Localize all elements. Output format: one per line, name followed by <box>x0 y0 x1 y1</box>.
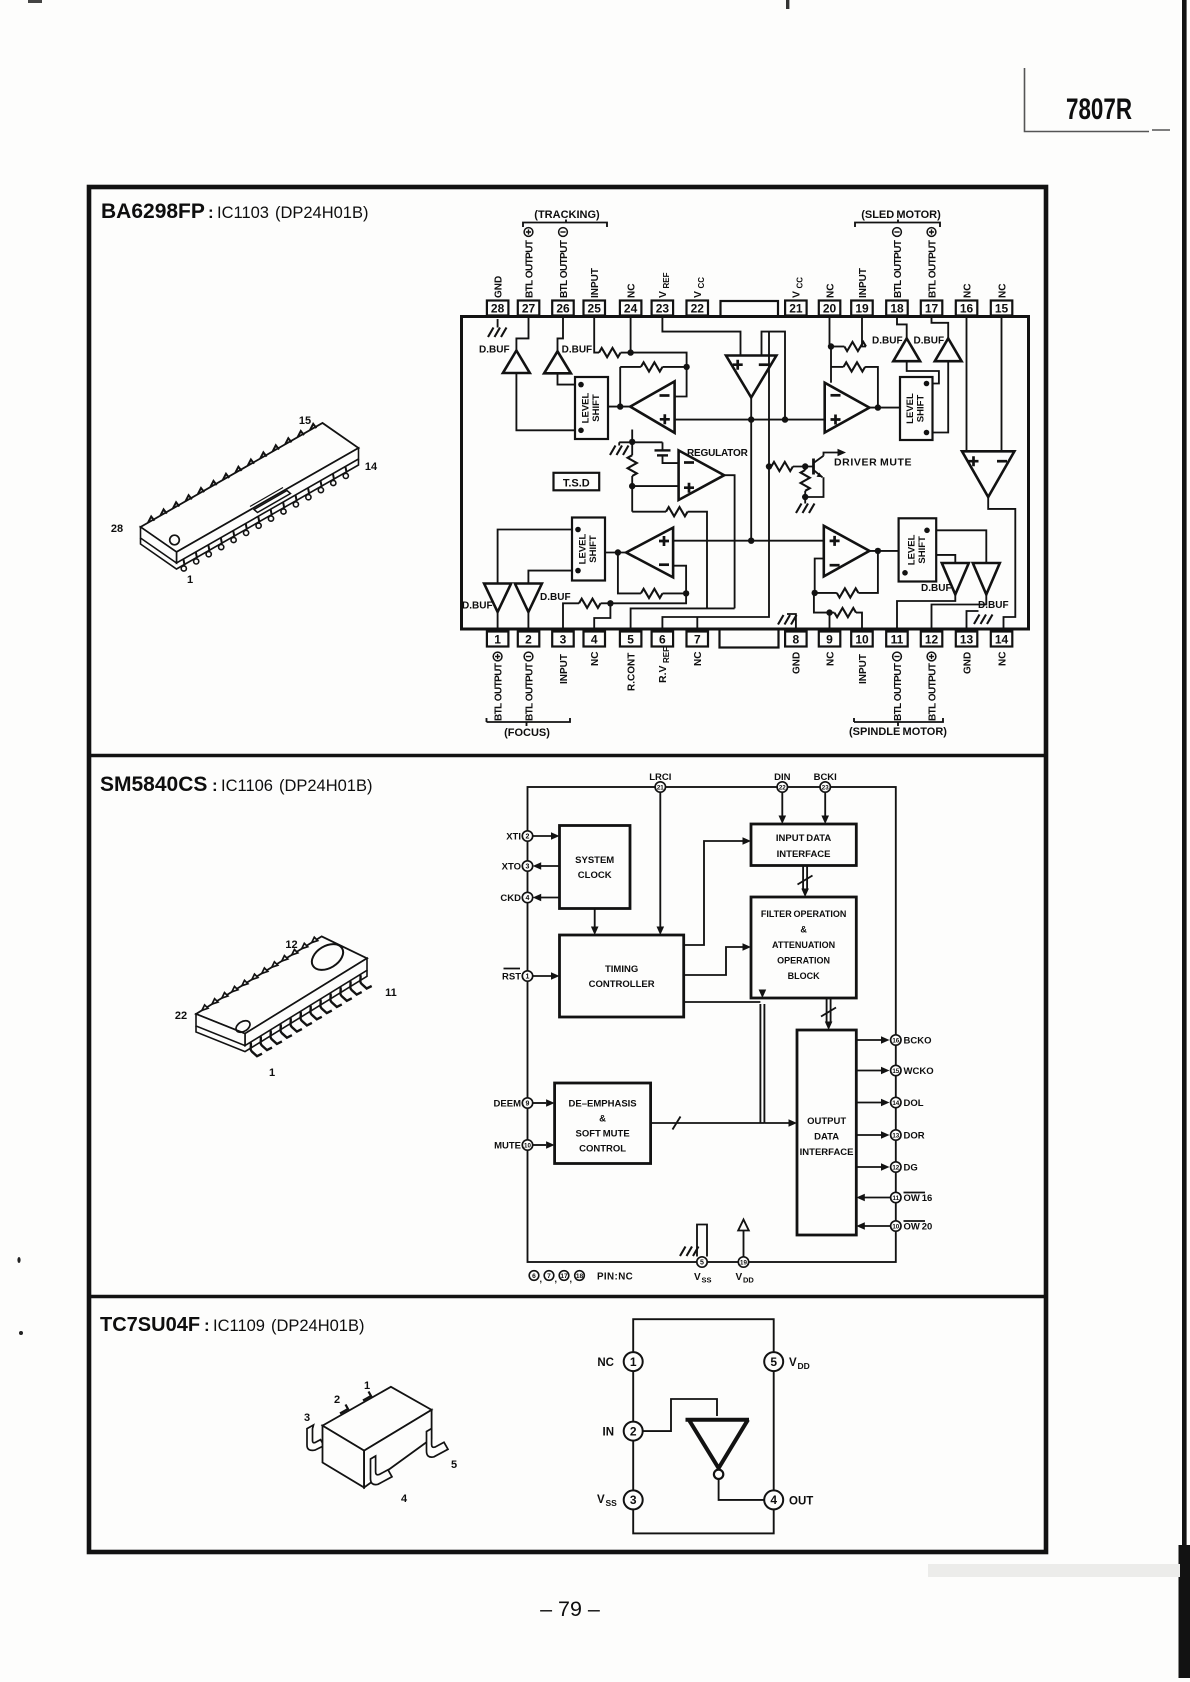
svg-text:INPUT DATA: INPUT DATA <box>776 833 832 844</box>
pin 5 label R.CONT <box>626 653 637 691</box>
pin 8 label GND <box>792 652 803 674</box>
node N9 <box>802 494 808 500</box>
svg-text:OUTPUT: OUTPUT <box>807 1116 846 1127</box>
XTO arrow <box>533 862 560 870</box>
svg-text:2: 2 <box>526 833 530 840</box>
svg-text:SYSTEM: SYSTEM <box>575 855 614 866</box>
pin circle XTO 3 <box>502 861 533 873</box>
svg-text:IC1109 (DP24H01B): IC1109 (DP24H01B) <box>213 1317 364 1335</box>
svg-text:BTL OUTPUT: BTL OUTPUT <box>559 240 570 298</box>
svg-text:INPUT: INPUT <box>858 654 869 684</box>
svg-text:BCKO: BCKO <box>904 1036 932 1047</box>
wire N10 down <box>830 347 832 383</box>
pin 19 box <box>851 301 873 316</box>
ground G3 <box>796 504 815 514</box>
svg-text:RST: RST <box>502 972 521 983</box>
svg-text:15: 15 <box>299 415 311 427</box>
pin 27 label BTLP <box>524 228 535 298</box>
svg-text:21: 21 <box>657 784 664 791</box>
svg-text:2: 2 <box>334 1394 340 1406</box>
pin circle 2 IN <box>603 1422 643 1441</box>
IC U2 boundary <box>528 787 896 1262</box>
svg-text:14: 14 <box>892 1100 899 1107</box>
svg-text:5: 5 <box>627 633 634 647</box>
pin 24 box <box>620 301 642 316</box>
svg-text:14: 14 <box>995 633 1009 647</box>
pin 4 wire <box>594 603 610 630</box>
svg-text:3: 3 <box>526 863 530 870</box>
wire B7 to pin 11 <box>897 595 955 632</box>
scan specks <box>17 1257 20 1263</box>
svg-text:NC: NC <box>590 652 601 666</box>
(TRACKING) group bracket <box>523 209 607 227</box>
D.BUF buffer B4 (pin 17) <box>914 316 962 361</box>
output data interface block <box>797 1030 856 1235</box>
wire level shift to B4 <box>933 361 949 432</box>
wire N13 to A6 inverting <box>673 566 686 594</box>
svg-text:1: 1 <box>494 633 501 647</box>
svg-text:MUTE: MUTE <box>494 1141 521 1152</box>
system clock to timing controller arrow <box>591 909 599 936</box>
pin 13 label GND <box>962 652 973 674</box>
pin 11 label BTLM <box>893 652 904 721</box>
D.BUF buffer B6 (pin 2) <box>515 584 571 632</box>
svg-text:SHIFT: SHIFT <box>917 536 928 564</box>
node N12 <box>615 549 621 555</box>
svg-text:SM5840CS: SM5840CS <box>100 773 207 796</box>
svg-text:BTL OUTPUT: BTL OUTPUT <box>524 663 535 721</box>
svg-text:LEVEL: LEVEL <box>905 393 916 424</box>
D.BUF buffer B3 (pin 18) <box>872 316 920 361</box>
pin 11 box <box>886 632 908 647</box>
svg-text:7807R: 7807R <box>1066 93 1132 126</box>
svg-text:,: , <box>570 1274 573 1284</box>
svg-text:23: 23 <box>656 302 670 316</box>
pin 14 box <box>991 632 1013 647</box>
svg-text:V: V <box>791 291 803 298</box>
svg-text:10: 10 <box>855 633 869 647</box>
pin circle DG 12 <box>891 1162 918 1174</box>
resistor R4 (regulator feedback) <box>632 507 707 608</box>
ground G2 <box>610 442 629 455</box>
svg-text:DD: DD <box>798 1361 810 1371</box>
svg-text:19: 19 <box>740 1259 747 1266</box>
svg-text:SHIFT: SHIFT <box>588 535 599 563</box>
resistor R12 (pin 10 input) <box>830 608 863 630</box>
(FOCUS) group bracket <box>487 718 571 739</box>
svg-text:5: 5 <box>700 1259 704 1266</box>
svg-text:INTERFACE: INTERFACE <box>800 1147 854 1158</box>
resistor R1 (pin 25 input) <box>594 316 630 357</box>
pin 1 box <box>487 632 509 647</box>
de-emphasis output bus <box>651 990 797 1130</box>
pin 18 box <box>886 301 908 316</box>
svg-text:(FOCUS): (FOCUS) <box>504 727 550 739</box>
svg-text:&: & <box>800 925 807 935</box>
IC1109 package drawing <box>304 1380 457 1505</box>
non-inverting rail lower <box>673 540 824 542</box>
pin 27 box <box>518 301 540 316</box>
svg-text:SOFT MUTE: SOFT MUTE <box>576 1129 630 1140</box>
node N17 <box>826 609 832 615</box>
IC U3 boundary <box>633 1319 774 1533</box>
pin 3 label INPUT <box>559 654 570 684</box>
level shift U1d <box>899 518 937 581</box>
pin 20 stub <box>830 316 832 347</box>
svg-text:(SLED MOTOR): (SLED MOTOR) <box>861 209 941 221</box>
pin 26 box <box>552 301 574 316</box>
wire N14 to N13 <box>610 593 686 603</box>
pin circle LRCI 21 <box>649 772 671 792</box>
svg-text::: : <box>208 203 214 222</box>
pin 4 label NC <box>590 652 601 666</box>
resistor R5 (driver mute base) <box>766 462 814 471</box>
pin 6 box <box>652 632 674 647</box>
svg-text:GND: GND <box>962 652 973 674</box>
pin circle BCKO 16 <box>891 1035 932 1047</box>
svg-text:XTO: XTO <box>502 862 521 873</box>
svg-text:BTL OUTPUT: BTL OUTPUT <box>493 663 504 721</box>
pin 12 label BTLP <box>927 652 938 721</box>
svg-text:D.BUF: D.BUF <box>540 592 571 603</box>
BCKO wire <box>856 1036 889 1044</box>
svg-text:BA6298FP: BA6298FP <box>101 200 205 223</box>
svg-text:5: 5 <box>770 1355 777 1369</box>
node N1 <box>627 349 633 355</box>
svg-text:28: 28 <box>491 302 505 316</box>
D.BUF buffer B7 (pin 11) <box>921 563 969 595</box>
pin 7 box <box>687 632 709 647</box>
wire N2 to inverting input <box>675 367 687 397</box>
op-amp A2 (Vref buffer, points down) <box>726 356 776 398</box>
svg-text:DRIVER MUTE: DRIVER MUTE <box>834 457 912 469</box>
pin 24 label NC <box>626 284 637 298</box>
svg-text:15: 15 <box>892 1068 899 1075</box>
svg-text:BTL OUTPUT: BTL OUTPUT <box>927 663 938 721</box>
svg-text:3: 3 <box>560 633 567 647</box>
pin 16 wire <box>966 316 968 451</box>
wire level shift to B6 <box>528 571 572 584</box>
pin 2 label BTLM <box>524 652 535 721</box>
pin circle RST 1 <box>502 969 533 983</box>
resistor R10 (pin 3 input) <box>563 599 610 630</box>
input data interface block <box>751 824 856 866</box>
DOL wire <box>856 1099 889 1107</box>
svg-text:5: 5 <box>451 1459 457 1471</box>
svg-text:1: 1 <box>364 1380 370 1392</box>
resistor R3 (divider) <box>628 455 637 512</box>
resistor R2 (feedback op-amp A1) <box>620 362 686 371</box>
system clock block <box>560 826 631 909</box>
svg-text:CONTROLLER: CONTROLLER <box>589 979 655 990</box>
svg-text:IC1106 (DP24H01B): IC1106 (DP24H01B) <box>221 777 372 795</box>
svg-text:20: 20 <box>823 302 837 316</box>
divider 2 <box>89 1295 1046 1298</box>
svg-text:23: 23 <box>822 784 829 791</box>
svg-text:8: 8 <box>793 633 800 647</box>
svg-text:REF: REF <box>662 272 671 288</box>
svg-text:17: 17 <box>925 302 939 316</box>
svg-text:DIN: DIN <box>774 772 791 783</box>
svg-text:NC: NC <box>997 652 1008 666</box>
svg-text:V: V <box>789 1357 797 1369</box>
node N4 <box>782 416 788 422</box>
svg-text:11: 11 <box>385 987 397 999</box>
node N11 <box>875 404 881 410</box>
level shift U1a <box>575 377 608 439</box>
pin 16 box <box>956 301 978 316</box>
svg-text:V: V <box>692 291 704 298</box>
pin circle CKD 4 <box>500 892 532 904</box>
wire A4 out to level shift <box>869 407 900 409</box>
svg-text:11: 11 <box>893 1195 900 1202</box>
svg-text:26: 26 <box>556 302 570 316</box>
svg-text:22: 22 <box>779 784 786 791</box>
svg-text:DG: DG <box>904 1163 918 1174</box>
pin circle OW20 10 <box>891 1221 933 1233</box>
DIN wire <box>779 792 787 824</box>
svg-text:– 79 –: – 79 – <box>540 1597 600 1621</box>
svg-text:TC7SU04F: TC7SU04F <box>100 1314 200 1336</box>
OW16 wire <box>856 1194 890 1202</box>
svg-text:12: 12 <box>925 633 939 647</box>
wire level shift to A6 <box>605 552 626 554</box>
pin circle DIN 22 <box>774 772 791 792</box>
(SPINDLE MOTOR) group bracket <box>849 718 947 738</box>
regulator op-amp A3 <box>679 448 749 500</box>
pin 26 label BTLM <box>559 228 570 298</box>
top mounting tab <box>721 301 779 317</box>
D.BUF buffer B5 (pin 1) <box>462 584 511 632</box>
pin circle MUTE 10 <box>494 1140 533 1152</box>
wire Vref pin 23 to A2 <box>662 316 740 356</box>
IC U1 body <box>462 317 1029 630</box>
svg-text:INPUT: INPUT <box>858 268 869 298</box>
pin 15 wire <box>1001 316 1003 451</box>
pin 13 box <box>956 632 978 647</box>
ground G5 (pin 13) <box>967 611 993 632</box>
resistor R9 (A6 feedback) <box>618 553 686 599</box>
pin 5 box <box>620 632 642 647</box>
pin circle DEEM 9 <box>494 1098 533 1110</box>
D.BUF buffer B2 (pin 26) <box>544 316 592 373</box>
header tab rule around 7807R <box>1025 68 1150 132</box>
svg-text:LRCI: LRCI <box>649 772 671 783</box>
wire N17 to N16 <box>814 593 830 613</box>
svg-text:V: V <box>736 1272 743 1283</box>
op-amp A1 (tracking, points left) <box>630 381 674 432</box>
pin 25 box <box>584 301 606 316</box>
wire N1 to N2 <box>631 353 687 367</box>
svg-text:&: & <box>599 1114 606 1125</box>
wire B1 to level shift <box>516 373 575 430</box>
svg-text:4: 4 <box>401 1493 408 1505</box>
pin 22 label VCC <box>692 277 706 298</box>
svg-text:D.BUF: D.BUF <box>462 601 493 612</box>
svg-text:V: V <box>694 1272 701 1283</box>
svg-text:IC1103 (DP24H01B): IC1103 (DP24H01B) <box>217 204 368 222</box>
svg-text:6: 6 <box>532 1273 536 1280</box>
timing to input data interface wire <box>684 837 751 945</box>
pin 12 box <box>921 632 943 647</box>
wire level shift to B7 <box>936 555 955 563</box>
svg-text:9: 9 <box>826 633 833 647</box>
DG wire <box>856 1163 889 1171</box>
pin 1 label BTLP <box>493 652 504 721</box>
svg-text:T.S.D: T.S.D <box>563 477 590 489</box>
svg-text:SHIFT: SHIFT <box>591 394 602 422</box>
svg-text:NC: NC <box>693 652 704 666</box>
D.BUF buffer B8 (pin 12) <box>973 563 1009 611</box>
svg-text:,: , <box>555 1274 558 1284</box>
filter operation block <box>751 897 856 998</box>
wire inverter to pin 4 <box>719 1479 765 1500</box>
svg-text:LEVEL: LEVEL <box>906 534 917 565</box>
pin 6 label RVREF <box>657 647 671 683</box>
(SLED MOTOR) group bracket <box>855 209 941 227</box>
svg-text:16: 16 <box>892 1037 899 1044</box>
svg-text:REGULATOR: REGULATOR <box>687 448 749 459</box>
svg-text:22: 22 <box>175 1010 187 1022</box>
OW20 wire <box>856 1222 890 1230</box>
pin circle 1 NC <box>597 1352 642 1371</box>
svg-text:D.BUF: D.BUF <box>562 345 593 356</box>
svg-text:DOR: DOR <box>904 1131 925 1142</box>
wire A2 inverting feedback <box>762 332 786 420</box>
resistor R8 (sled feedback) <box>831 362 878 407</box>
svg-text:BTL OUTPUT: BTL OUTPUT <box>524 240 535 298</box>
svg-text:D.BUF: D.BUF <box>921 583 952 594</box>
node N14 <box>607 600 613 606</box>
svg-text:4: 4 <box>591 633 598 647</box>
svg-text:LEVEL: LEVEL <box>581 393 592 424</box>
svg-text:28: 28 <box>111 523 123 535</box>
wire level shift to B8 <box>936 530 986 563</box>
svg-text::: : <box>212 776 218 795</box>
divider 1 <box>89 754 1046 757</box>
timing to output bus wire <box>684 1001 761 1003</box>
svg-text:NC: NC <box>597 1357 614 1369</box>
svg-text:BLOCK: BLOCK <box>788 971 820 981</box>
svg-text:19: 19 <box>855 302 869 316</box>
svg-text:(TRACKING): (TRACKING) <box>534 209 600 221</box>
A5 output wire to pin 14 <box>988 497 1015 632</box>
pin 24 stub <box>630 316 632 353</box>
svg-text:10: 10 <box>892 1223 899 1230</box>
svg-text:IN: IN <box>603 1427 615 1439</box>
node N15 <box>875 548 881 554</box>
CKD arrow <box>533 894 560 902</box>
ground G4 (pin 8) <box>778 614 797 632</box>
svg-text:NC: NC <box>825 284 836 298</box>
svg-text:CKD: CKD <box>500 893 521 904</box>
pin 23 label VREF <box>657 272 671 298</box>
wire level shift to B3 <box>907 361 939 383</box>
pin circle VDD 19 <box>736 1257 755 1285</box>
pin 18 label BTLM <box>893 228 904 298</box>
pin 17 label BTLP <box>927 228 938 298</box>
op-amp A4 (sled, points right) <box>825 383 870 433</box>
non-inverting rail upper <box>676 419 824 421</box>
pin 23 box <box>652 301 674 316</box>
pin circle BCKI 23 <box>814 772 837 792</box>
svg-text:24: 24 <box>624 302 638 316</box>
svg-text:SS: SS <box>606 1498 618 1508</box>
svg-text:NC: NC <box>626 284 637 298</box>
svg-text:R.CONT: R.CONT <box>626 653 637 691</box>
node N7 <box>629 439 635 445</box>
svg-text:3: 3 <box>304 1412 310 1424</box>
svg-text:INPUT: INPUT <box>590 268 601 298</box>
WCKO wire <box>856 1067 889 1075</box>
VDD branch <box>738 1220 749 1257</box>
svg-text:18: 18 <box>890 302 904 316</box>
svg-text:1: 1 <box>526 973 530 980</box>
NC pins note <box>529 1271 633 1284</box>
pin circle OW16 11 <box>891 1192 933 1204</box>
D.BUF buffer B1 (pin 27) <box>479 316 530 373</box>
resistor R6 (driver mute emitter) <box>801 463 810 503</box>
timing controller block <box>560 935 684 1017</box>
svg-text:D.BUF: D.BUF <box>914 336 945 347</box>
svg-text:D.BUF: D.BUF <box>978 600 1009 611</box>
pin 9 label NC <box>825 652 836 666</box>
pin circle DOL 14 <box>891 1097 924 1109</box>
svg-text:27: 27 <box>522 302 536 316</box>
pin 10 box <box>851 632 873 647</box>
pin 20 label NC <box>825 284 836 298</box>
svg-text:INTERFACE: INTERFACE <box>777 849 831 860</box>
regulator output wire <box>724 475 734 608</box>
node N8 <box>629 483 635 489</box>
svg-text:14: 14 <box>365 461 378 473</box>
svg-text:BTL OUTPUT: BTL OUTPUT <box>893 240 904 298</box>
svg-text:V: V <box>597 1494 605 1506</box>
MUTE arrow <box>533 1141 555 1149</box>
svg-text:1: 1 <box>269 1067 275 1079</box>
svg-text:18: 18 <box>576 1273 584 1280</box>
op-amp A6 (focus, points left) <box>626 528 673 578</box>
svg-text:ATTENUATION: ATTENUATION <box>772 940 835 950</box>
svg-text:LEVEL: LEVEL <box>578 534 589 565</box>
pin circle 4 OUT <box>764 1490 813 1509</box>
svg-text:9: 9 <box>526 1100 530 1107</box>
svg-text:REF: REF <box>662 647 671 663</box>
svg-text:XTI: XTI <box>506 832 521 843</box>
LRCI wire <box>657 792 665 935</box>
svg-text:1: 1 <box>187 574 193 586</box>
pin 28 label GND <box>493 276 504 298</box>
svg-text:CC: CC <box>795 277 804 289</box>
pin 17 box <box>921 301 943 316</box>
op-amp A7 (spindle, points right) <box>824 526 870 577</box>
svg-text:7: 7 <box>547 1273 551 1280</box>
svg-text:4: 4 <box>770 1493 777 1507</box>
svg-text:13: 13 <box>892 1132 899 1139</box>
pin 15 box <box>991 301 1013 316</box>
svg-text:V: V <box>657 291 669 298</box>
level shift U1c <box>572 518 605 581</box>
capacitor C1 <box>655 442 679 463</box>
pin 2 box <box>518 632 540 647</box>
node N5 <box>748 416 754 422</box>
svg-text:BCKI: BCKI <box>814 772 837 783</box>
svg-text:CC: CC <box>697 277 706 289</box>
svg-text:16: 16 <box>960 302 974 316</box>
pin 9 stub <box>829 613 831 630</box>
svg-text:DE–EMPHASIS: DE–EMPHASIS <box>569 1099 637 1110</box>
wire N16 to A7 inverting <box>815 559 824 593</box>
